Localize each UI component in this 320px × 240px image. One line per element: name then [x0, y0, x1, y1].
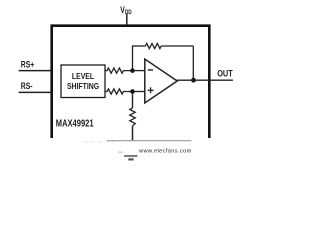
node junction plus input [130, 89, 135, 94]
node junction minus input [130, 68, 135, 73]
svg-text:MAX49921: MAX49921 [56, 117, 94, 128]
feedback wire top right segment [161, 45, 193, 47]
resistor R bottom input [105, 89, 133, 94]
IC boundary box [52, 26, 210, 138]
feedback wire left vertical [132, 46, 134, 71]
resistor R ground [130, 108, 135, 126]
ground symbol [118, 152, 138, 159]
wire minus input [133, 70, 145, 72]
wire VDD stub [126, 14, 128, 26]
wire resistor to ground rail [132, 126, 134, 141]
node junction output [191, 78, 196, 83]
wire plus input [133, 91, 145, 93]
svg-text:RS-: RS- [21, 81, 33, 91]
svg-text:VDD: VDD [120, 5, 131, 16]
op-amp U1 [145, 59, 177, 103]
block LEVEL SHIFTING [61, 65, 105, 98]
svg-text:OUT: OUT [217, 69, 233, 79]
wire RS- [19, 91, 52, 93]
wire RS+ [19, 70, 52, 72]
feedback wire top left segment [132, 45, 146, 47]
svg-text:www.elecfans.com: www.elecfans.com [138, 148, 192, 154]
ground rail line [107, 140, 192, 142]
resistor R top input [105, 68, 133, 73]
wire plus node to resistor [132, 92, 134, 109]
feedback wire right vertical [192, 46, 194, 80]
resistor R feedback [146, 43, 162, 48]
faint artifact dashes [84, 141, 114, 143]
svg-text:LEVEL: LEVEL [72, 71, 95, 81]
svg-text:SHIFTING: SHIFTING [67, 82, 99, 92]
svg-text:RS+: RS+ [21, 59, 35, 69]
wire output [177, 79, 233, 81]
